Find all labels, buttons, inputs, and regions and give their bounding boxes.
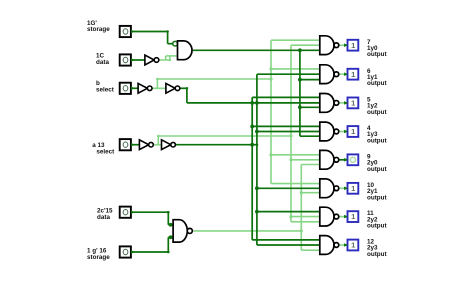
wire inverter U4 out down to b line <box>180 87 188 103</box>
wire 2data line from NAND U7 to riser vF <box>193 229 303 232</box>
label output 2y0 <box>367 153 387 172</box>
wire top input of gate 1y1 <box>271 68 322 71</box>
svg-text:output: output <box>367 251 387 258</box>
negated input bubble on AND U1 <box>173 41 178 46</box>
output pin 1y1 (pin 6) <box>344 69 358 80</box>
inverter U5 on a select <box>139 140 153 150</box>
input pin 2C' data (pin 15) <box>120 207 135 218</box>
svg-text:output: output <box>367 51 387 58</box>
wire inverter U3 out to inverter U4 (b') <box>152 87 166 89</box>
output pin 2y0 (pin 9) <box>344 154 358 165</box>
label output 1y1 <box>367 68 387 87</box>
stub at AND U1 lower input wing <box>165 56 167 60</box>
wire bottom input of gate 2y0 <box>301 163 322 166</box>
wire AND U1 output to gate 1y0 bottom input <box>192 48 322 52</box>
label 1G' storage <box>87 20 110 33</box>
output pin 2y3 (pin 12) <box>344 240 358 251</box>
wire bottom input of gate 2y2 <box>291 221 322 224</box>
svg-text:output: output <box>367 109 387 116</box>
label a 13 select <box>92 142 115 156</box>
wire vertical vD (b') x=271 <box>269 40 272 183</box>
wire bottom input of gate 1y2 <box>300 106 322 109</box>
svg-text:output: output <box>367 80 387 87</box>
wire mid input of gate 1y0 <box>291 44 322 47</box>
wire 2G' storage pin to NAND U7 bottom input <box>131 235 173 253</box>
NAND gate U7 (2C,2G) <box>173 220 192 242</box>
wire vertical v1 (b) x=252.2 <box>250 97 254 240</box>
wire output of gate 2y2 to pin <box>339 216 347 218</box>
input pin 2G' storage (pin 16) <box>120 246 135 257</box>
nand gate 1y0 <box>320 36 339 55</box>
wire bottom input of gate 2y3 <box>301 249 322 252</box>
wire a line from inverter U6 to vertical v2 <box>175 143 258 146</box>
svg-text:data: data <box>97 214 110 221</box>
wire 2C' data pin to NAND U7 top input <box>131 211 173 227</box>
wire top input of gate 1y0 <box>271 39 322 42</box>
wire mid input of gate 2y0 <box>291 159 322 162</box>
wire AND U1 lower input wing <box>166 55 178 57</box>
wire storage pin to AND U1 negated input <box>131 30 173 44</box>
wire inverter U2 output to AND U1 lower input <box>158 56 171 61</box>
wire output of gate 1y1 to pin <box>339 73 347 75</box>
nand gate 2y3 <box>320 236 339 255</box>
wire b line to gate 1y2 mid input <box>187 102 322 105</box>
inverter U6 on a select <box>162 140 176 150</box>
wire mid input of gate 2y2 <box>291 215 322 218</box>
wire output of gate 1y0 to pin <box>339 44 347 46</box>
nand gate 2y0 <box>320 150 339 169</box>
wire mid input of gate 1y3 <box>257 130 322 133</box>
wire top input of gate 1y2 <box>252 96 322 99</box>
label output 1y0 <box>367 39 387 58</box>
wire top input of gate 1y3 <box>252 125 322 128</box>
label 1 g' 16 storage <box>87 247 110 260</box>
wire top input of gate 2y0 <box>271 154 322 157</box>
svg-text:output: output <box>367 166 387 173</box>
label output 2y2 <box>367 210 387 229</box>
wire vertical vE (a') x=291 <box>289 45 292 222</box>
label output 2y1 <box>367 182 387 201</box>
output pin 1y2 (pin 5) <box>344 98 358 109</box>
label output 1y3 <box>367 125 387 144</box>
wire mid input of gate 1y1 <box>257 73 322 76</box>
wire output of gate 2y0 to pin <box>339 159 347 161</box>
wire top input of gate 2y2 <box>257 210 322 213</box>
wire a pin to inverter U5 <box>131 144 139 146</box>
wire bottom input of gate 2y1 <box>301 191 322 194</box>
wire mid input of gate 2y1 <box>257 187 322 190</box>
wire output of gate 2y3 to pin <box>339 244 347 246</box>
wire bottom input of gate 1y1 <box>300 78 322 81</box>
nand gate 2y1 <box>320 179 339 198</box>
input pin a select (pin 13) <box>120 139 135 150</box>
nand gate 1y1 <box>320 65 339 84</box>
input pin b select <box>120 83 135 94</box>
svg-text:storage: storage <box>87 26 110 33</box>
wire inverter U5 out to inverter U6 (a') <box>153 144 161 146</box>
wire vertical vF (2data) x=301.3 <box>300 165 303 251</box>
wire top input of gate 2y1 <box>271 182 322 185</box>
inverter U3 on b select <box>138 83 152 93</box>
nand gate 1y2 <box>320 94 339 113</box>
output pin 1y0 (pin 7) <box>344 40 358 51</box>
output pin 1y3 (pin 4) <box>344 126 358 137</box>
svg-text:select: select <box>96 87 115 94</box>
wire vertical v3 (1data) x=299.9 <box>298 50 302 136</box>
svg-text:storage: storage <box>87 254 110 261</box>
wire top input of gate 2y3 <box>252 239 322 242</box>
inverter U4 on b select <box>166 83 180 93</box>
output pin 2y1 (pin 10) <box>344 183 358 194</box>
input pin 1C data <box>120 54 135 65</box>
wire output of gate 2y1 to pin <box>339 187 347 189</box>
output pin 2y2 (pin 11) <box>344 211 358 222</box>
svg-text:output: output <box>367 138 387 145</box>
wire bottom input of gate 1y3 <box>300 135 322 138</box>
wire 1C data pin to inverter U2 <box>131 59 145 61</box>
svg-text:output: output <box>367 194 387 201</box>
AND gate U1 <box>178 41 193 60</box>
nand gate 1y3 <box>320 122 339 141</box>
svg-text:select: select <box>96 149 115 156</box>
inverter U2 on 1C data <box>145 55 159 65</box>
wire mid input of gate 2y3 <box>257 244 322 247</box>
wire b' riser and b' bus line <box>156 78 271 89</box>
wire vertical v2 (a) x=256.9 <box>255 74 259 245</box>
nand gate 2y2 <box>320 207 339 226</box>
wire output of gate 1y3 to pin <box>339 131 347 133</box>
input pin 1G' storage (pin 1) <box>120 26 135 37</box>
wire a' riser and a' bus line <box>157 135 291 145</box>
label 1C data <box>96 52 109 66</box>
label 2c' 15 data <box>97 207 113 221</box>
svg-text:output: output <box>367 223 387 230</box>
wire output of gate 1y2 to pin <box>339 102 347 104</box>
label output 2y3 <box>367 239 387 258</box>
svg-text:data: data <box>96 59 109 66</box>
label output 1y2 <box>367 97 387 116</box>
label b select <box>96 80 115 94</box>
wire b pin to inverter U3 <box>131 87 138 89</box>
